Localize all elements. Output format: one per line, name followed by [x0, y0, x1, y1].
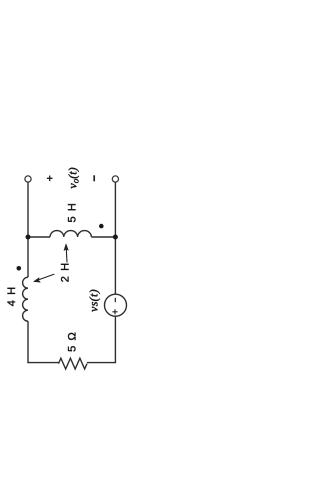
inductor L1 4H coil	[23, 277, 28, 321]
resistor 5ohm zigzag	[59, 358, 88, 369]
wire: left rail upper segment	[27, 182, 29, 277]
junction dot right	[113, 235, 118, 240]
arrow from 2H to 5H coil	[65, 249, 68, 263]
svg-text:vs(t): vs(t)	[87, 289, 101, 312]
polarity dot for 5H coil	[99, 224, 104, 229]
wire: right rail source to middle junction	[114, 237, 116, 294]
polarity dot for 4H coil	[17, 266, 22, 271]
svg-text:5 H: 5 H	[67, 202, 79, 222]
wire: bottom rail right of resistor	[87, 362, 116, 364]
junction dot left	[26, 235, 31, 240]
inductor L2 5H coil	[50, 231, 91, 237]
svg-text:vo(t): vo(t)	[66, 167, 81, 188]
voltage source vs(t) circle	[105, 294, 127, 316]
wire: right rail middle junction to terminal	[114, 182, 116, 237]
wire: bottom rail left of resistor	[27, 362, 58, 364]
wire: right rail below source	[114, 316, 116, 362]
svg-text:2 H: 2 H	[60, 262, 72, 282]
wire: left rail lower segment	[27, 321, 29, 362]
arrow from 2H to 4H coil	[39, 274, 54, 280]
svg-text:5 Ω: 5 Ω	[67, 331, 79, 352]
source minus sign (rotated)	[114, 298, 116, 302]
plus sign of output	[47, 176, 53, 182]
wire: middle branch left segment	[28, 236, 50, 238]
minus sign of output (rotated)	[93, 175, 95, 181]
wire: middle branch right segment	[91, 236, 115, 238]
source plus sign	[112, 309, 117, 314]
terminal: top right open circle	[112, 176, 118, 182]
terminal: top left open circle	[25, 176, 31, 182]
svg-text:4 H: 4 H	[6, 286, 18, 306]
